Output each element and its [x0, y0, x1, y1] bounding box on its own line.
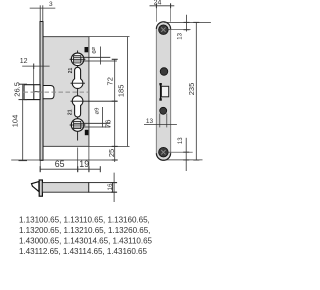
- bottom screw blob: [85, 130, 89, 135]
- svg-text:25: 25: [107, 149, 116, 157]
- plate bottom extension: [162, 159, 203, 161]
- faceplate bottom extension left: [11, 159, 115, 161]
- bottom follower slot lines: [74, 122, 111, 124]
- lower hole: [160, 107, 167, 114]
- bottom screw: [159, 147, 169, 157]
- dim 13 hole line: [144, 124, 177, 126]
- dim 3 line: [30, 7, 56, 9]
- bottom cylinder keyhole: [72, 96, 83, 117]
- plate top extension right: [164, 21, 211, 23]
- dim phi9 top line: [99, 47, 101, 65]
- top screw blob: [85, 47, 89, 52]
- top follower: [70, 53, 86, 66]
- hole diameter extension lines: [159, 114, 161, 128]
- faceplate section bar: [39, 180, 42, 196]
- extension faceplate front down: [39, 160, 41, 171]
- dim 26.5 + 104 vertical line: [22, 84, 24, 160]
- svg-text:⌀9: ⌀9: [90, 47, 96, 54]
- svg-text:104: 104: [11, 115, 20, 128]
- bar edge extensions: [113, 182, 117, 184]
- screw center extension right: [168, 29, 190, 31]
- svg-text:12: 12: [20, 58, 28, 65]
- dim 24 extension lines: [155, 3, 157, 22]
- svg-text:72: 72: [106, 77, 115, 85]
- dim 3 extension lines: [39, 5, 41, 21]
- svg-text:65: 65: [55, 159, 65, 169]
- extension case back down: [88, 146, 90, 171]
- svg-text:21: 21: [68, 109, 74, 115]
- svg-text:21: 21: [68, 68, 74, 74]
- case body bar top view: [42, 183, 88, 193]
- svg-text:13: 13: [178, 32, 184, 39]
- right multi dim line 72/76/25: [114, 59, 116, 162]
- vertical centerline segments: [77, 51, 79, 75]
- dashed horizontal centerline: [24, 91, 89, 93]
- svg-text:26.5: 26.5: [13, 82, 22, 97]
- bottom screw center extension: [167, 151, 192, 153]
- middle screw hole: [160, 68, 168, 76]
- svg-text:⌀9: ⌀9: [95, 108, 101, 115]
- dim 24 line: [150, 5, 175, 7]
- case bottom edge extension to 185 dim: [89, 145, 130, 147]
- latch opening front edge: [160, 84, 162, 101]
- svg-text:3: 3: [49, 1, 53, 8]
- faceplate edge-on bar: [40, 22, 43, 161]
- dim 13 bottom line: [185, 138, 187, 171]
- latch tail rounded rect: [43, 86, 54, 99]
- svg-text:13: 13: [146, 118, 154, 125]
- dim phi9 bottom line: [102, 107, 104, 128]
- dim 16 line: [113, 173, 115, 202]
- svg-text:1.43112.65, 1.43114.65, 1.4316: 1.43112.65, 1.43114.65, 1.43160.65: [19, 247, 147, 256]
- top cylinder cross tick: [71, 82, 86, 84]
- svg-text:16: 16: [107, 183, 114, 191]
- dim 13 top line: [186, 15, 188, 32]
- svg-text:19: 19: [79, 159, 89, 169]
- svg-text:24: 24: [154, 0, 162, 7]
- svg-text:13: 13: [178, 137, 184, 144]
- latch bolt front view: [24, 85, 40, 100]
- bottom cylinder cross tick + extension to dims: [71, 100, 117, 102]
- svg-text:185: 185: [117, 85, 126, 98]
- latch opening rect: [161, 86, 168, 97]
- top follower slot lines: [74, 56, 111, 58]
- dim 185 line: [127, 37, 129, 147]
- svg-text:1.43000.65, 1.143014.65, 1.431: 1.43000.65, 1.143014.65, 1.43110.65: [19, 237, 153, 246]
- dim 24 text: [155, 3, 157, 8]
- faceplate top arc black: [156, 22, 170, 29]
- bottom dim 65/19 line: [40, 168, 100, 170]
- svg-text:235: 235: [187, 83, 196, 96]
- extension centerline down: [77, 148, 79, 172]
- top screw: [159, 25, 169, 35]
- dim 12 line: [22, 65, 49, 67]
- top cylinder keyhole: [72, 67, 83, 88]
- faceplate bottom arc black: [156, 153, 170, 160]
- dim 235 line: [195, 22, 197, 160]
- svg-text:76: 76: [104, 120, 113, 128]
- dim 12 extension from latch bevel: [33, 66, 35, 85]
- svg-text:1.13200.65, 1.13210.65, 1.1326: 1.13200.65, 1.13210.65, 1.13260.65,: [19, 226, 150, 235]
- lock case body: [43, 37, 89, 147]
- case top edge extension to 185 dim: [89, 36, 130, 38]
- faceplate plan: [156, 22, 170, 161]
- bottom follower: [70, 119, 86, 132]
- product codes text: [19, 216, 153, 257]
- latch nose wedge: [32, 182, 39, 192]
- latch bevel line: [33, 85, 35, 100]
- svg-text:1.13100.65, 1.13110.65, 1.1316: 1.13100.65, 1.13110.65, 1.13160.65,: [19, 216, 150, 225]
- latch mid tick: [34, 91, 40, 93]
